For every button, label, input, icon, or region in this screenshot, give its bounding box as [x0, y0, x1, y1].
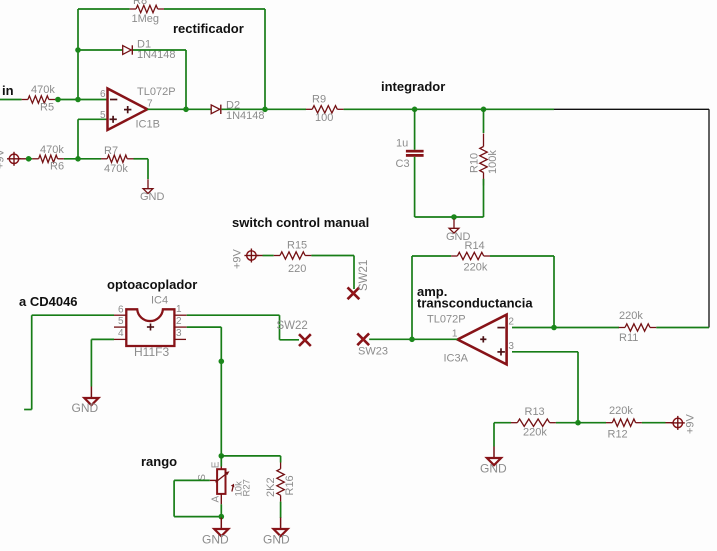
svg-text:1Meg: 1Meg — [132, 13, 160, 25]
capacitor C3 — [396, 138, 424, 171]
svg-text:R14: R14 — [465, 240, 485, 252]
svg-text:220k: 220k — [609, 405, 633, 417]
svg-text:6: 6 — [100, 89, 106, 100]
wire long feedback right black — [708, 109, 710, 327]
ground GND pot — [202, 518, 229, 547]
wire IC1B output — [147, 108, 211, 110]
wire pin4 left — [91, 338, 114, 340]
wire R14 right corner down — [553, 256, 555, 328]
svg-text:470k: 470k — [104, 163, 128, 175]
svg-text:R8: R8 — [133, 0, 147, 7]
wire pin2 right — [187, 326, 222, 328]
supply +9V switch — [232, 248, 259, 269]
junction C3 top — [412, 107, 418, 113]
svg-text:GND: GND — [263, 533, 290, 547]
wire D2 to R9 — [222, 108, 306, 110]
svg-text:2: 2 — [176, 316, 182, 327]
pin stub IC4-1 — [174, 314, 186, 316]
wire +9V to R15 — [263, 255, 274, 257]
resistor R8 — [130, 0, 164, 25]
ground GND opto — [72, 387, 99, 416]
resistor R13 — [511, 406, 556, 439]
pin stub IC4-6 — [114, 314, 126, 316]
resistor R6 — [32, 144, 64, 173]
wire long feedback top black — [554, 108, 709, 110]
svg-text:rectificador: rectificador — [173, 21, 244, 36]
svg-text:GND: GND — [202, 533, 229, 547]
resistor R14 — [451, 240, 490, 274]
svg-text:1N4148: 1N4148 — [226, 110, 265, 122]
svg-text:GND: GND — [72, 401, 99, 415]
switch flag SW22 — [277, 320, 311, 346]
svg-text:7: 7 — [147, 99, 153, 110]
wire R6 to node — [64, 158, 101, 160]
svg-text:in: in — [2, 83, 14, 98]
potentiometer R27 — [197, 461, 253, 504]
svg-text:5: 5 — [100, 110, 106, 121]
svg-text:2K2: 2K2 — [265, 477, 277, 497]
svg-text:1: 1 — [452, 329, 458, 340]
wire down to SW21 — [353, 256, 355, 290]
wire R14 right — [490, 255, 554, 257]
wire R11 to feedback — [656, 327, 709, 329]
wire R14 left — [412, 255, 451, 257]
svg-text:IC3A: IC3A — [444, 353, 469, 365]
wire pin2 down — [220, 327, 222, 456]
wire left branch vertical — [77, 9, 79, 100]
svg-text:6: 6 — [118, 305, 124, 316]
wire D1 cathode — [133, 49, 186, 51]
supply +9V right — [671, 413, 697, 434]
wire rango to R16 — [221, 455, 280, 457]
wire R9 to integrator — [344, 108, 484, 110]
svg-text:3: 3 — [176, 328, 182, 339]
ground GND under R7 — [140, 179, 165, 203]
svg-text:transconductancia: transconductancia — [417, 296, 533, 311]
resistor R16 — [265, 463, 296, 502]
pin stub IC4-5 — [114, 326, 126, 328]
svg-text:optoacoplador: optoacoplador — [107, 277, 197, 292]
resistor R15 — [274, 240, 312, 276]
wire R10 bottom — [483, 179, 485, 217]
wire R16 bottom — [280, 502, 282, 518]
wire to SW22 — [280, 339, 300, 341]
wire +9V to R6 stub — [19, 158, 26, 160]
wire C3 bottom — [414, 157, 416, 217]
wire integrator bottom — [415, 216, 484, 218]
svg-text:3: 3 — [508, 341, 514, 352]
svg-text:R16: R16 — [284, 475, 296, 495]
diode D1 — [123, 39, 176, 62]
svg-text:1u: 1u — [396, 138, 408, 150]
svg-text:H11F3: H11F3 — [134, 345, 169, 359]
svg-text:2: 2 — [508, 317, 514, 328]
diode D2 — [211, 100, 264, 123]
resistor R5 — [22, 84, 56, 113]
svg-text:R13: R13 — [525, 406, 545, 418]
svg-text:R7: R7 — [104, 145, 118, 157]
svg-text:+9V: +9V — [685, 413, 697, 434]
svg-text:R10: R10 — [469, 153, 481, 173]
wire R8 drop to output node — [264, 9, 266, 109]
svg-text:220: 220 — [288, 263, 306, 275]
svg-text:R27: R27 — [242, 479, 253, 496]
wire to D1 anode — [78, 49, 123, 51]
supply +9V left — [0, 148, 21, 169]
switch flag SW23 — [357, 333, 369, 345]
svg-text:A: A — [210, 496, 221, 503]
resistor R7 — [101, 145, 134, 175]
svg-text:R11: R11 — [619, 332, 638, 344]
svg-text:R15: R15 — [287, 240, 307, 252]
svg-text:IC1B: IC1B — [136, 119, 160, 131]
wire R13 to node — [556, 422, 578, 424]
svg-text:a CD4046: a CD4046 — [19, 294, 78, 309]
wire pin4 down — [90, 339, 92, 386]
wire wiper left — [174, 479, 210, 481]
wire IC3A output — [369, 338, 457, 340]
svg-text:switch control manual: switch control manual — [232, 215, 369, 230]
junction R13 R12 — [575, 420, 581, 426]
resistor R10 — [469, 134, 500, 186]
junction pin2 R14 — [551, 325, 557, 331]
resistor R11 — [619, 310, 657, 344]
pin stub +9V right — [666, 422, 674, 424]
svg-text:R5: R5 — [40, 101, 54, 113]
svg-text:470k: 470k — [40, 144, 64, 156]
wire to R10 top — [483, 109, 485, 133]
op-amp IC1B — [100, 86, 176, 131]
pin stub IC4-4 — [114, 338, 126, 340]
svg-text:rango: rango — [141, 454, 177, 469]
svg-text:100k: 100k — [487, 150, 499, 174]
pin stub IC4-3 — [174, 338, 186, 340]
svg-text:SW23: SW23 — [358, 346, 388, 358]
switch flag SW21 — [348, 260, 371, 300]
wire CD4046 end — [24, 409, 32, 411]
resistor R12 — [606, 405, 642, 441]
junction pot bottom — [219, 514, 225, 520]
wire D1 drop to output node — [185, 50, 187, 109]
pin stub IC4-2 — [174, 326, 186, 328]
junction D1 node — [183, 107, 189, 113]
resistor R9 — [306, 94, 344, 125]
junction integrator gnd — [451, 214, 457, 220]
svg-text:220k: 220k — [619, 310, 643, 322]
ground GND R16 — [263, 518, 290, 547]
svg-text:TL072P: TL072P — [427, 314, 466, 326]
svg-text:C3: C3 — [396, 158, 410, 170]
svg-text:4: 4 — [118, 328, 124, 339]
junction pin2 wire — [219, 359, 225, 365]
svg-text:+9V: +9V — [0, 148, 7, 169]
ground GND under R13 — [480, 447, 507, 476]
junction IC3A out R14 — [409, 337, 415, 343]
wire in — [0, 99, 22, 101]
wire pin1 right — [187, 314, 280, 316]
svg-text:R9: R9 — [312, 94, 326, 106]
svg-text:GND: GND — [480, 462, 507, 476]
svg-text:GND: GND — [140, 191, 165, 203]
svg-text:+9V: +9V — [232, 248, 244, 269]
wire R5 to op-amp pin 6 — [55, 99, 107, 101]
wire wiper bottom — [174, 516, 221, 518]
pin stub +9V switch — [256, 255, 262, 257]
svg-text:SW22: SW22 — [277, 320, 308, 332]
junction node R5 out — [55, 97, 61, 103]
wire R13 left — [494, 422, 511, 424]
svg-text:470k: 470k — [31, 84, 55, 96]
ground GND integrator — [446, 219, 471, 243]
junction rango top — [219, 453, 225, 459]
svg-text:integrador: integrador — [381, 79, 445, 94]
wire top feedback right — [164, 8, 265, 10]
svg-text:R12: R12 — [608, 429, 628, 441]
wire pin3 down — [577, 352, 579, 423]
wire CD4046 vertical — [31, 315, 33, 409]
wire wiper down — [173, 480, 175, 516]
junction node inverting input — [75, 97, 81, 103]
junction +9V node — [26, 156, 32, 162]
wire down to GND — [147, 159, 149, 179]
wire top feedback left — [78, 8, 130, 10]
wire R12 to +9V — [642, 422, 666, 424]
svg-text:TL072P: TL072P — [137, 86, 176, 98]
wire integrator out green — [484, 108, 555, 110]
wire to C3 top — [414, 109, 416, 150]
junction R6 R7 node — [75, 156, 81, 162]
junction R8 node — [262, 107, 268, 113]
wire CD4046 horizontal — [32, 314, 114, 316]
wire R15 right — [311, 255, 354, 257]
wire R7 to GND corner — [134, 158, 149, 160]
wire node up to pin 5 — [77, 119, 79, 159]
wire +9V to R6 — [26, 158, 32, 160]
svg-text:5: 5 — [118, 316, 124, 327]
svg-text:E: E — [210, 461, 221, 468]
svg-text:100: 100 — [315, 112, 333, 124]
junction left-branch D1 — [75, 47, 81, 53]
op-amp IC3A — [427, 314, 514, 365]
svg-text:IC4: IC4 — [151, 295, 168, 307]
wire pin1 down — [279, 315, 281, 340]
wire to op-amp pin 5 — [78, 118, 107, 120]
svg-text:1: 1 — [176, 304, 182, 315]
wire node to R12 — [578, 422, 606, 424]
wire pot A to node — [220, 504, 222, 516]
wire R13 gnd down — [493, 423, 495, 447]
svg-text:220k: 220k — [523, 427, 547, 439]
junction R10 top — [481, 107, 487, 113]
wire R16 top — [280, 456, 282, 463]
wire IC3A pin3 — [512, 351, 578, 353]
svg-text:R6: R6 — [50, 161, 64, 173]
svg-text:SW21: SW21 — [358, 260, 370, 291]
wire R14 left corner down — [411, 256, 413, 339]
svg-text:220k: 220k — [464, 262, 488, 274]
wire pot top stub — [220, 456, 222, 467]
wire IC3A pin2 — [512, 327, 619, 329]
optocoupler IC4 — [118, 295, 182, 360]
